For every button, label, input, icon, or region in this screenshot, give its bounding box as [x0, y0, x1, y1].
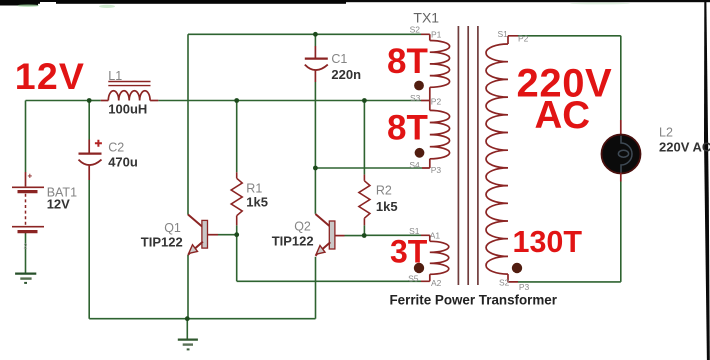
svg-text:8T: 8T — [387, 42, 428, 81]
node emitter ground junction — [185, 316, 190, 321]
wire Q2 base to A1 — [345, 234, 422, 236]
svg-text:Q1: Q1 — [164, 221, 181, 235]
transformer core — [458, 26, 478, 285]
svg-text:S2: S2 — [499, 278, 510, 288]
battery BAT1 — [12, 172, 44, 233]
svg-text:C1: C1 — [331, 52, 347, 66]
wire R1 bottom — [236, 225, 238, 234]
wire lamp bottom — [518, 182, 621, 282]
node R1 top — [234, 98, 239, 103]
node Q1 base — [234, 232, 239, 237]
right black bar — [704, 2, 710, 360]
transformer TX1 feedback winding 3T (A1-A2) — [421, 235, 449, 281]
wire top rail — [26, 34, 621, 339]
transformer TX1 primary winding 8T (P2-P3) — [422, 110, 450, 168]
svg-text:C2: C2 — [108, 140, 124, 154]
node C1 bottom / Q2 collector — [313, 166, 318, 171]
svg-text:S5: S5 — [408, 274, 419, 284]
svg-text:12V: 12V — [47, 197, 70, 212]
wire 12V feed — [26, 101, 90, 173]
svg-text:3T: 3T — [390, 234, 428, 270]
svg-text:A1: A1 — [430, 231, 441, 241]
svg-text:1k5: 1k5 — [246, 195, 268, 210]
wire R2 bottom — [363, 225, 365, 235]
resistor R2 — [359, 175, 370, 226]
svg-text:TIP122: TIP122 — [141, 234, 183, 249]
svg-text:R2: R2 — [376, 184, 392, 198]
svg-text:8T: 8T — [387, 109, 428, 148]
wire R1 top — [236, 101, 238, 173]
node C1 top — [313, 32, 318, 37]
wire Q2 emitter vertical — [315, 257, 317, 319]
transformer TX1 secondary winding 130T — [486, 36, 518, 282]
capacitor C2 — [79, 140, 102, 181]
svg-text:S4: S4 — [409, 160, 420, 170]
wire secondary top to lamp — [518, 36, 621, 120]
wire P3 rail — [315, 167, 422, 169]
svg-text:100uH: 100uH — [108, 102, 147, 117]
svg-text:S3: S3 — [410, 93, 421, 103]
svg-text:R1: R1 — [246, 182, 262, 196]
phase dot winding 3T — [414, 263, 424, 273]
svg-text:L2: L2 — [659, 126, 673, 140]
lamp L2 — [602, 120, 641, 182]
node Q2 base — [362, 233, 367, 238]
svg-text:S2: S2 — [410, 25, 421, 35]
phase dot winding 2 — [415, 148, 425, 158]
phase dot secondary — [512, 263, 522, 273]
transistor Q2 — [315, 214, 344, 256]
wire C1 top — [314, 34, 316, 46]
wire base drive Q1 to A2 — [237, 235, 421, 282]
wire main +12V rail — [158, 100, 421, 102]
ground (main) — [178, 340, 198, 351]
svg-text:P2: P2 — [518, 34, 529, 44]
svg-text:A2: A2 — [431, 278, 442, 288]
svg-text:P1: P1 — [431, 30, 442, 40]
wire battery bottom — [25, 233, 27, 273]
svg-text:+: + — [28, 172, 33, 181]
wire Q2 collector vertical — [314, 168, 316, 214]
ground (battery) — [15, 274, 36, 284]
svg-text:L1: L1 — [108, 69, 122, 83]
svg-text:220n: 220n — [331, 67, 361, 82]
wire Q1 emitter vertical — [187, 255, 189, 319]
wire Q1 base — [218, 234, 237, 236]
svg-text:P3: P3 — [519, 282, 530, 292]
wire ground stub main — [186, 319, 188, 339]
wire left vertical (Q1 collector) — [187, 34, 189, 215]
top black bar — [0, 0, 710, 8]
svg-text:Ferrite Power Transformer: Ferrite Power Transformer — [390, 292, 558, 307]
wire bottom rail — [89, 318, 315, 320]
inductor L1 — [101, 82, 159, 101]
svg-text:130T: 130T — [513, 225, 583, 259]
phase dot winding 1 — [414, 81, 424, 91]
node R2 top — [362, 98, 367, 103]
svg-text:TX1: TX1 — [413, 10, 439, 26]
svg-text:S1: S1 — [498, 29, 509, 39]
svg-text:470u: 470u — [108, 154, 138, 169]
capacitor C1 — [305, 46, 328, 82]
svg-text:AC: AC — [535, 94, 591, 137]
node L1 left junction — [87, 98, 92, 103]
svg-text:1k5: 1k5 — [376, 199, 398, 214]
transistor Q1 — [188, 215, 218, 256]
C2 plus sign — [95, 140, 102, 147]
svg-text:P3: P3 — [431, 165, 442, 175]
wire C1 bottom — [314, 82, 316, 168]
transformer TX1 primary winding 8T (P1-P2) — [421, 34, 450, 110]
svg-text:TIP122: TIP122 — [272, 234, 314, 249]
svg-text:220V AC: 220V AC — [659, 140, 710, 155]
wire R2 top — [363, 101, 365, 175]
svg-text:Q2: Q2 — [294, 220, 311, 234]
svg-text:2: 2 — [24, 244, 28, 251]
wire C2 top — [88, 101, 90, 140]
wire L1 left stub — [89, 100, 101, 102]
resistor R1 — [231, 172, 242, 225]
svg-text:P2: P2 — [431, 96, 442, 106]
wire C2 bottom — [88, 180, 90, 319]
svg-text:12V: 12V — [15, 55, 85, 97]
